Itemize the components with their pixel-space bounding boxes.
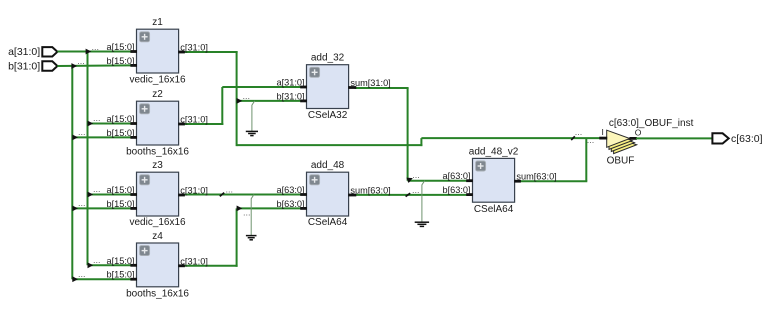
wire net z3.c to add_48.a bbox=[184, 194, 301, 196]
pin a[15:0] stub of z3 bbox=[130, 193, 137, 196]
svg-text:b[63:0]: b[63:0] bbox=[276, 199, 304, 209]
wire net add_48_v2.sum: riser x=586.3 bbox=[585, 138, 587, 181]
arrow tap add_32.b bbox=[237, 98, 243, 104]
wire net add_32.sum: horizontal bbox=[355, 87, 409, 89]
pin a[63:0] stub of add_48 bbox=[300, 193, 307, 196]
svg-text:b[31:0]: b[31:0] bbox=[8, 61, 40, 73]
wire net z1.c: horizontal from z1.c bbox=[184, 51, 238, 53]
wire net add_48_v2.sum: horizontal bbox=[521, 180, 588, 182]
pin a[63:0] stub of add_48_v2 bbox=[466, 179, 473, 182]
wire net z2.c: riser x=222.3 bbox=[221, 87, 223, 125]
buffer U: c[63:0]_OBUF_inst (OBUF) bbox=[602, 118, 694, 166]
wire net add_32.sum: riser x=407.6 bbox=[407, 88, 409, 181]
wire net z1.c: horizontal y=145 bbox=[237, 144, 423, 146]
wire net c: OBUF output to port c[63:0] bbox=[636, 137, 713, 139]
svg-text:a[31:0]: a[31:0] bbox=[8, 46, 40, 58]
ground below add_48_v2.b bbox=[415, 181, 429, 227]
block add_32 (CSelA32) bbox=[307, 53, 349, 121]
junction arrow net a at riser bbox=[86, 49, 92, 55]
wire net z4.c: riser x=236.6 bbox=[236, 208, 238, 266]
wire net add_48.sum to add_48_v2.b bbox=[355, 194, 467, 196]
block z3 (vedic_16x16) bbox=[129, 160, 186, 228]
arrow tap z3.b bbox=[72, 206, 78, 212]
svg-text:sum[63:0]: sum[63:0] bbox=[350, 186, 390, 196]
svg-text:vedic_16x16: vedic_16x16 bbox=[129, 217, 186, 228]
svg-text:sum[63:0]: sum[63:0] bbox=[516, 172, 556, 182]
svg-text:CSelA32: CSelA32 bbox=[308, 110, 348, 121]
svg-text:OBUF: OBUF bbox=[607, 155, 635, 166]
svg-text:b[15:0]: b[15:0] bbox=[106, 128, 134, 138]
svg-text:...: ... bbox=[92, 42, 100, 52]
wire net b: vertical bus riser x=72.3 bbox=[71, 65, 73, 279]
wire net z4.c: horizontal to add_48.b bbox=[237, 207, 301, 209]
input port a[31:0] bbox=[8, 46, 57, 58]
output port c[63:0] bbox=[712, 133, 762, 145]
wire net a: port a to z1.a bbox=[57, 51, 131, 53]
svg-text:...: ... bbox=[412, 170, 420, 180]
pin b[15:0] stub of z3 bbox=[130, 207, 137, 210]
svg-text:a[63:0]: a[63:0] bbox=[442, 171, 470, 181]
arrow tap z2.b bbox=[72, 135, 78, 141]
wire net a: tap to z3.a bbox=[88, 194, 132, 196]
svg-text:b[15:0]: b[15:0] bbox=[106, 270, 134, 280]
pin b[31:0] stub of add_32 bbox=[300, 100, 307, 103]
bus-join tick on z3.c net bbox=[220, 193, 224, 197]
svg-text:CSelA64: CSelA64 bbox=[308, 217, 348, 228]
pin c[31:0] stub of z4 bbox=[178, 264, 185, 267]
svg-text:c[31:0]: c[31:0] bbox=[180, 43, 208, 53]
svg-text:...: ... bbox=[78, 127, 86, 137]
svg-text:b[31:0]: b[31:0] bbox=[276, 91, 304, 101]
svg-text:a[15:0]: a[15:0] bbox=[106, 114, 134, 124]
svg-text:CSelA64: CSelA64 bbox=[474, 204, 514, 215]
arrow tap z2.a bbox=[88, 121, 94, 127]
svg-text:...: ... bbox=[93, 184, 101, 194]
pin c[31:0] stub of z3 bbox=[178, 194, 185, 197]
wire net z1.c: long line to OBUF y=138 bbox=[421, 137, 600, 139]
pin sum[63:0] stub of add_48 bbox=[348, 194, 356, 197]
wire net z1.c: jog up x=421.4 bbox=[420, 138, 422, 146]
svg-text:c[63:0]: c[63:0] bbox=[731, 133, 763, 145]
input port b[31:0] bbox=[8, 61, 57, 73]
svg-text:vedic_16x16: vedic_16x16 bbox=[129, 75, 186, 86]
svg-text:add_48: add_48 bbox=[311, 160, 345, 171]
block z1 (vedic_16x16) bbox=[129, 17, 186, 85]
pin b[63:0] stub of add_48_v2 bbox=[466, 193, 473, 196]
wire net a: corner to z4.a bbox=[88, 264, 132, 266]
svg-text:add_48_v2: add_48_v2 bbox=[469, 146, 519, 157]
wire net a: vertical bus riser x=87.5 bbox=[87, 51, 89, 266]
block z2 (booths_16x16) bbox=[126, 89, 189, 157]
svg-text:z1: z1 bbox=[152, 17, 163, 28]
arrow tap z3.a bbox=[88, 192, 94, 198]
svg-text:...: ... bbox=[575, 127, 583, 137]
wire net a: tap to z2.a bbox=[88, 123, 132, 125]
pin a[15:0] stub of z1 bbox=[130, 50, 137, 53]
svg-text:c[63:0]_OBUF_inst: c[63:0]_OBUF_inst bbox=[609, 118, 694, 129]
block z4 (booths_16x16) bbox=[126, 231, 189, 299]
svg-text:b[63:0]: b[63:0] bbox=[442, 185, 470, 195]
svg-text:...: ... bbox=[77, 56, 85, 66]
arrow corner add_48.b bbox=[237, 206, 243, 212]
svg-text:I: I bbox=[602, 127, 604, 137]
svg-text:c[31:0]: c[31:0] bbox=[180, 115, 208, 125]
svg-text:booths_16x16: booths_16x16 bbox=[126, 147, 189, 158]
pin c[31:0] stub of z2 bbox=[178, 123, 185, 126]
arrow corner z4.b bbox=[72, 276, 78, 282]
wire net add_32.sum: horizontal to add_48_v2.a bbox=[408, 180, 467, 182]
ground below add_32.b bbox=[246, 101, 258, 136]
arrow corner add_48_v2.a bbox=[406, 175, 413, 183]
svg-text:b[15:0]: b[15:0] bbox=[106, 199, 134, 209]
pin b[63:0] stub of add_48 bbox=[300, 207, 307, 210]
svg-text:...: ... bbox=[587, 135, 595, 145]
pin a[31:0] stub of add_32 bbox=[300, 86, 307, 89]
svg-text:z4: z4 bbox=[152, 231, 163, 242]
svg-text:a[15:0]: a[15:0] bbox=[106, 42, 134, 52]
svg-text:z2: z2 bbox=[152, 89, 163, 100]
svg-text:...: ... bbox=[243, 207, 251, 217]
svg-text:a[15:0]: a[15:0] bbox=[106, 185, 134, 195]
junction arrow net b at riser bbox=[71, 63, 77, 69]
svg-text:z3: z3 bbox=[152, 160, 163, 171]
pin a[15:0] stub of z4 bbox=[130, 264, 137, 267]
OBUF output pin stub bbox=[629, 137, 637, 140]
svg-text:a[31:0]: a[31:0] bbox=[276, 78, 304, 88]
ground below add_48 nets bbox=[246, 195, 257, 240]
svg-text:a[63:0]: a[63:0] bbox=[276, 185, 304, 195]
pin sum[31:0] stub of add_32 bbox=[348, 86, 356, 89]
svg-text:a[15:0]: a[15:0] bbox=[106, 256, 134, 266]
pin sum[63:0] stub of add_48_v2 bbox=[514, 180, 521, 183]
bus-join tick on add_48.sum net bbox=[406, 193, 411, 196]
pin b[15:0] stub of z2 bbox=[130, 136, 137, 139]
wire net z4.c: horizontal from z4.c bbox=[184, 265, 238, 267]
pin a[15:0] stub of z2 bbox=[130, 122, 137, 125]
wire net b: corner to z4.b bbox=[72, 278, 131, 280]
svg-text:...: ... bbox=[93, 255, 101, 265]
svg-text:...: ... bbox=[78, 198, 86, 208]
arrow corner z4.a bbox=[88, 262, 94, 268]
wire net z2.c: horizontal from z2.c bbox=[184, 123, 223, 125]
wire net b: port b to z1.b bbox=[57, 64, 131, 67]
svg-text:...: ... bbox=[93, 113, 101, 123]
wire net z1.c: riser x=236.6 bbox=[236, 51, 238, 146]
svg-text:b[15:0]: b[15:0] bbox=[106, 56, 134, 66]
svg-text:booths_16x16: booths_16x16 bbox=[126, 288, 189, 299]
OBUF input pin stub bbox=[599, 137, 607, 140]
svg-text:sum[31:0]: sum[31:0] bbox=[350, 78, 390, 88]
wire net b: tap to z3.b bbox=[72, 207, 131, 209]
svg-text:add_32: add_32 bbox=[311, 53, 345, 64]
svg-text:...: ... bbox=[243, 91, 251, 101]
pin b[15:0] stub of z4 bbox=[130, 278, 137, 281]
block add_48_v2 (CSelA64) bbox=[469, 146, 519, 214]
svg-text:...: ... bbox=[78, 269, 86, 279]
wire net z2.c: horizontal to add_32.a bbox=[222, 86, 300, 88]
block add_48 (CSelA64) bbox=[307, 160, 349, 228]
svg-text:...: ... bbox=[412, 185, 420, 195]
svg-text:c[31:0]: c[31:0] bbox=[180, 186, 208, 196]
pin b[15:0] stub of z1 bbox=[130, 64, 137, 67]
pin c[31:0] stub of z1 bbox=[178, 51, 185, 54]
wire net z1.c: tap to add_32.b bbox=[237, 100, 301, 102]
svg-text:c[31:0]: c[31:0] bbox=[180, 256, 208, 266]
svg-text:O: O bbox=[635, 128, 642, 138]
wire net b: tap to z2.b bbox=[72, 136, 131, 138]
svg-text:...: ... bbox=[226, 184, 234, 194]
bus-join tick on OBUF input line bbox=[571, 136, 575, 140]
